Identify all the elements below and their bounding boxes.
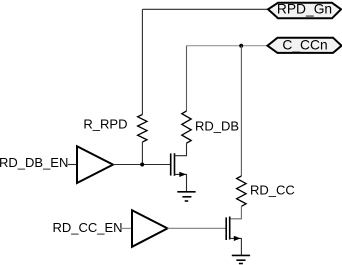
resistor R_RPD [138,115,147,143]
svg-text:C_CCn: C_CCn [282,38,327,53]
arrow Q1 source [179,172,186,177]
svg-text:RD_DB_EN: RD_DB_EN [0,155,68,170]
wire Q2 source to ground [230,238,242,255]
transistor Q1 gate bar [170,153,172,175]
transistor Q2 channel bar [229,217,231,240]
transistor Q2 gate bar [225,217,227,240]
wire R_RPD bottom lead [141,142,143,165]
wire Q1 source to ground [175,174,187,191]
wire Q1 drain to RD_DB bottom [175,143,187,156]
wire net RPD_Gn horizontal [143,8,269,10]
wire net C_CCn horizontal [187,45,268,47]
net flag RPD_Gn [268,3,341,18]
ground GND2 [232,255,250,263]
net flag C_CCn [268,38,342,53]
wire buffer U1 output to gate of Q1 [113,164,170,166]
buffer U2 (RD_CC_EN driver) [132,210,168,247]
wire buffer U2 input stub [120,227,132,229]
svg-text:RD_CC_EN: RD_CC_EN [53,220,123,235]
svg-text:RPD_Gn: RPD_Gn [277,1,332,16]
ground GND1 [177,192,195,201]
resistor RD_DB [182,111,191,143]
svg-text:RD_DB: RD_DB [195,119,239,134]
wire RD_DB top lead [186,46,188,111]
node junction C_CCn / RD_CC [239,44,243,48]
svg-text:RD_CC: RD_CC [250,183,295,198]
arrow Q2 source [234,236,241,241]
wire buffer U1 input stub [68,164,77,166]
svg-text:R_RPD: R_RPD [83,117,127,132]
resistor RD_CC [237,176,247,206]
wire net RPD_Gn vertical drop to R_RPD [141,9,143,114]
node junction R_RPD / gate wire [140,163,144,167]
wire RD_CC top lead [240,46,242,176]
transistor Q1 channel bar [174,153,176,176]
buffer U1 (RD_DB_EN driver) [77,146,113,183]
wire buffer U2 output to gate of Q2 [168,227,226,229]
wire RD_CC bottom to Q2 drain [230,206,242,219]
